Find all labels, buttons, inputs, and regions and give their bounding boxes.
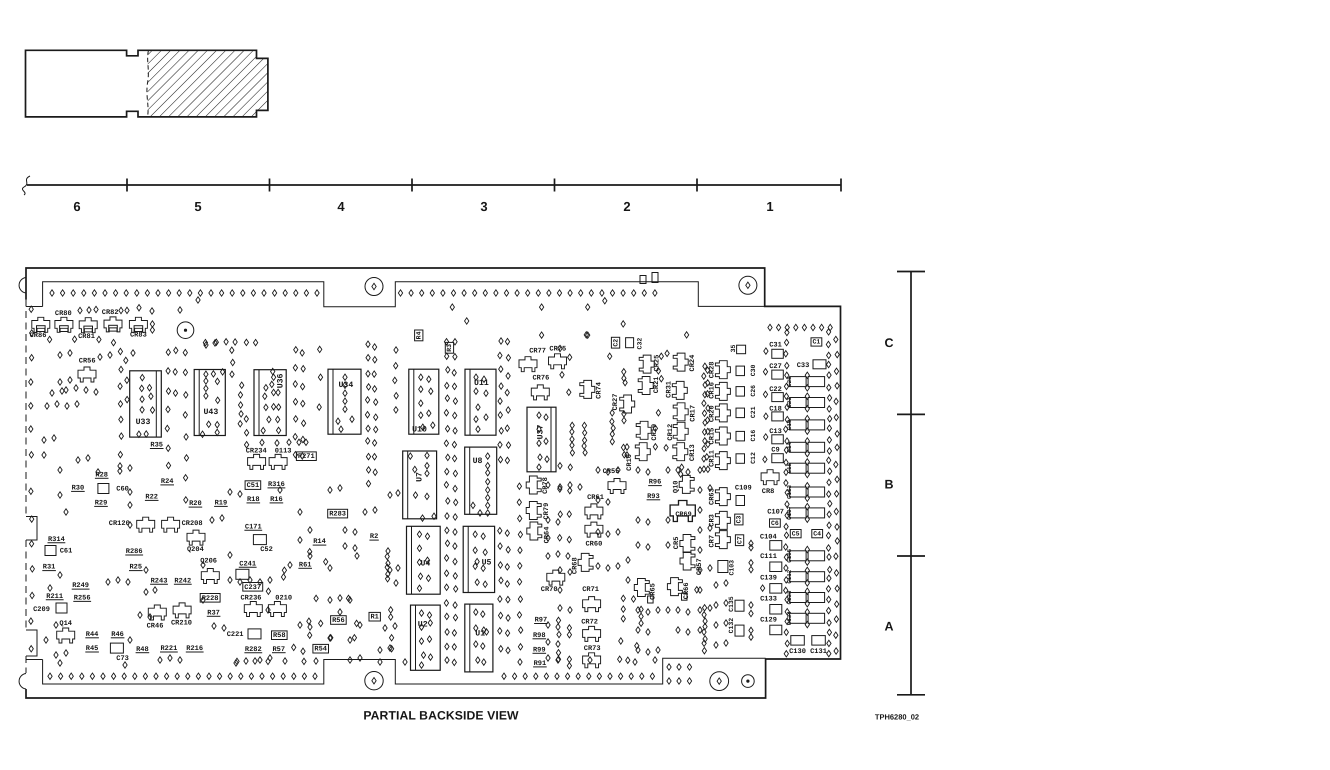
svg-text:C5: C5 bbox=[792, 530, 800, 537]
capacitor C12 body bbox=[736, 454, 745, 464]
svg-text:TPH6280_02: TPH6280_02 bbox=[875, 713, 919, 722]
label CR81 bbox=[78, 333, 95, 341]
label R221 bbox=[160, 645, 178, 653]
diode CR65 body bbox=[634, 579, 649, 597]
diode CR81 body bbox=[79, 318, 97, 333]
label CR70 bbox=[541, 586, 558, 594]
label R93 bbox=[647, 493, 661, 501]
label R3 bbox=[445, 342, 453, 353]
right scale bar line bbox=[910, 272, 912, 695]
capacitor C103 body bbox=[718, 561, 728, 573]
label CR20 bbox=[708, 405, 716, 422]
svg-text:C6: C6 bbox=[771, 520, 779, 527]
label R61 bbox=[298, 561, 312, 569]
svg-text:R1: R1 bbox=[370, 614, 378, 622]
left edge arc top bbox=[19, 278, 26, 294]
label CR17 bbox=[689, 405, 697, 422]
diode CR236 body bbox=[244, 602, 262, 617]
label C104 bbox=[760, 533, 777, 541]
svg-text:CR236: CR236 bbox=[240, 595, 261, 603]
diode CR61 body bbox=[585, 504, 603, 519]
capacitor C27 body bbox=[772, 370, 784, 379]
diode CR76 body bbox=[531, 385, 549, 400]
capacitor C31 body bbox=[772, 349, 784, 358]
ruler tick bbox=[554, 179, 556, 192]
diode CR19 body bbox=[636, 421, 651, 439]
IC U2 bbox=[411, 605, 441, 670]
label CR5 bbox=[673, 537, 681, 550]
IC U11 bbox=[465, 369, 496, 435]
board left edge dashed bbox=[25, 300, 27, 517]
svg-text:C135: C135 bbox=[728, 596, 735, 612]
label C111 bbox=[760, 553, 777, 561]
diode CR234 body bbox=[248, 454, 266, 469]
capacitor C22 body bbox=[772, 393, 784, 402]
label R19 bbox=[214, 500, 228, 508]
ruler break squiggle bbox=[22, 176, 30, 195]
capacitor pair row C138 bbox=[790, 593, 807, 603]
label R97 bbox=[534, 617, 548, 625]
connector body outline bbox=[26, 50, 268, 117]
capacitor C133 body bbox=[770, 605, 782, 615]
left edge notch 2 bbox=[26, 630, 37, 656]
label CR208 bbox=[182, 520, 203, 528]
diode CR21 body bbox=[638, 377, 653, 395]
label CR210 bbox=[171, 620, 192, 628]
diode CR82 body bbox=[104, 317, 122, 332]
label R249 bbox=[72, 582, 90, 590]
diode CR7 body bbox=[715, 531, 730, 549]
diode CR80 body bbox=[55, 317, 73, 332]
label C103 bbox=[728, 560, 735, 576]
capacitor C26 body bbox=[736, 387, 745, 397]
svg-text:C30: C30 bbox=[750, 364, 757, 376]
board inner silkscreen top bbox=[43, 282, 765, 307]
capacitor C104 body bbox=[770, 541, 782, 551]
diode CR27 body bbox=[620, 395, 635, 413]
diode CR69 body bbox=[670, 501, 695, 522]
transistor 0113 body bbox=[269, 454, 287, 469]
label C3 bbox=[735, 514, 743, 525]
label CR21 bbox=[653, 376, 661, 393]
diode CR75 body bbox=[549, 354, 567, 369]
svg-text:CR72: CR72 bbox=[581, 619, 598, 627]
label R4 bbox=[415, 330, 423, 341]
svg-text:CR208: CR208 bbox=[182, 520, 203, 528]
label CR64 bbox=[544, 527, 552, 544]
scale bar tick bbox=[897, 555, 925, 557]
capacitor C13 body bbox=[772, 435, 784, 444]
board outer edge bbox=[26, 268, 841, 698]
capacitor C9 body bbox=[772, 454, 784, 463]
svg-text:C1: C1 bbox=[812, 339, 820, 346]
transistor Q10 body bbox=[679, 475, 694, 493]
svg-text:Q204: Q204 bbox=[187, 546, 204, 554]
svg-text:2: 2 bbox=[623, 199, 630, 214]
label C7 bbox=[735, 535, 743, 546]
scale bar tick bbox=[897, 413, 925, 415]
label CR69 bbox=[675, 511, 691, 519]
svg-text:Q206: Q206 bbox=[200, 557, 217, 565]
scale bar tick bbox=[897, 271, 925, 273]
label R283 bbox=[328, 509, 348, 518]
label C1 bbox=[811, 338, 822, 346]
diode CR66 body bbox=[667, 578, 682, 596]
diode CR64 body bbox=[527, 522, 542, 540]
diode CR63 body bbox=[715, 488, 730, 506]
mounting hole bottom-right large bbox=[710, 672, 729, 691]
diode CR208 body bbox=[162, 517, 180, 532]
label C221 bbox=[227, 631, 244, 639]
mounting hole top-right bbox=[739, 276, 757, 294]
svg-text:CR31: CR31 bbox=[666, 381, 674, 398]
svg-text:U37: U37 bbox=[536, 425, 545, 440]
label C129 bbox=[760, 617, 777, 625]
svg-text:CR80: CR80 bbox=[55, 310, 72, 318]
svg-text:C4: C4 bbox=[813, 530, 821, 537]
label C139 bbox=[760, 575, 777, 583]
diode CR71 body bbox=[583, 597, 601, 612]
label R316 bbox=[268, 481, 286, 489]
label CR80 bbox=[55, 310, 72, 318]
capacitor C209 body bbox=[56, 603, 67, 613]
svg-text:C103: C103 bbox=[728, 560, 735, 576]
svg-text:PARTIAL BACKSIDE VIEW: PARTIAL BACKSIDE VIEW bbox=[363, 709, 519, 723]
svg-text:CR56: CR56 bbox=[79, 357, 96, 365]
label R22 bbox=[145, 494, 159, 502]
svg-text:C21: C21 bbox=[750, 406, 757, 418]
label C22 bbox=[769, 386, 782, 394]
svg-text:CR75: CR75 bbox=[549, 346, 566, 354]
diode CR68 body bbox=[578, 553, 593, 571]
capacitor pair row C23 bbox=[790, 398, 807, 408]
label C130 bbox=[789, 648, 806, 656]
label R14 bbox=[313, 538, 327, 546]
svg-text:CR13: CR13 bbox=[689, 444, 697, 461]
label R91 bbox=[533, 660, 547, 668]
label R271 bbox=[296, 452, 316, 461]
svg-text:U36: U36 bbox=[277, 373, 286, 388]
diode CR11 body bbox=[715, 452, 730, 470]
IC U19 bbox=[465, 604, 493, 672]
capacitor pair row C18 bbox=[790, 463, 807, 473]
diode CR25 body bbox=[639, 355, 654, 373]
capacitor C30 body bbox=[736, 366, 745, 376]
capacitor pair row C19 bbox=[790, 420, 807, 430]
diode CR210 body bbox=[173, 603, 191, 618]
diode CR31 body bbox=[672, 381, 687, 399]
label CR74 bbox=[595, 382, 603, 399]
label 0210 bbox=[275, 595, 292, 603]
label CR11 bbox=[708, 450, 716, 467]
scale bar tick bbox=[897, 694, 925, 696]
diode CR86 body bbox=[32, 317, 50, 332]
capacitor pair row C112 bbox=[790, 572, 807, 582]
label C9 bbox=[771, 447, 779, 455]
svg-text:R283: R283 bbox=[329, 511, 346, 519]
svg-text:B: B bbox=[884, 478, 893, 492]
label R56 bbox=[331, 616, 347, 625]
label CR72 bbox=[581, 619, 598, 627]
svg-text:CR46: CR46 bbox=[147, 623, 164, 631]
left edge notch 1 bbox=[26, 517, 37, 541]
label R211 bbox=[46, 593, 64, 601]
label C33 bbox=[797, 362, 810, 370]
capacitor C221 body bbox=[248, 629, 261, 639]
label C18 bbox=[769, 406, 782, 414]
svg-text:U33: U33 bbox=[136, 418, 151, 427]
label R256 bbox=[73, 595, 91, 603]
diode CR15 body bbox=[715, 427, 730, 445]
label C60 bbox=[116, 486, 129, 494]
svg-text:CR61: CR61 bbox=[587, 494, 604, 502]
capacitor C61 body bbox=[45, 546, 56, 556]
IC U37 bbox=[527, 407, 556, 472]
label R28 bbox=[95, 471, 109, 479]
diode CR10 body bbox=[635, 443, 650, 461]
connector hatched barrel bbox=[148, 50, 268, 117]
diode CR74 body bbox=[580, 380, 595, 398]
IC U8 bbox=[465, 447, 497, 516]
label Q14 bbox=[59, 620, 72, 628]
label R35 bbox=[150, 442, 164, 450]
svg-text:U7: U7 bbox=[416, 472, 425, 482]
svg-text:CR120: CR120 bbox=[109, 520, 130, 528]
svg-text:C14: C14 bbox=[786, 442, 793, 453]
label R46 bbox=[111, 631, 125, 639]
label CR25 bbox=[654, 355, 662, 372]
transistor Q204 body bbox=[187, 530, 205, 545]
label CR83 bbox=[130, 331, 147, 339]
IC U10 bbox=[409, 369, 439, 434]
label C135 bbox=[728, 596, 735, 612]
ruler tick bbox=[269, 179, 271, 192]
label C237 bbox=[243, 583, 263, 592]
label CR86 bbox=[30, 332, 47, 340]
svg-text:CR8: CR8 bbox=[762, 488, 775, 496]
capacitor pair row C105 bbox=[790, 551, 807, 561]
capacitor C32 body bbox=[626, 338, 634, 348]
svg-text:Q10: Q10 bbox=[673, 480, 681, 493]
label CR46 bbox=[147, 623, 164, 631]
fiducial rect 1 bbox=[640, 276, 646, 284]
diode CR77 body bbox=[519, 357, 537, 372]
svg-text:CR11: CR11 bbox=[708, 450, 716, 467]
capacitor pair row C14 bbox=[790, 442, 807, 452]
label R20 bbox=[189, 500, 203, 508]
label C21 bbox=[750, 406, 757, 418]
label C32 bbox=[636, 338, 643, 350]
svg-text:CR16: CR16 bbox=[708, 382, 716, 399]
svg-text:C2: C2 bbox=[612, 339, 619, 347]
label C12 bbox=[750, 452, 757, 464]
inner stub bottom-left bbox=[26, 659, 43, 661]
svg-text:Q14: Q14 bbox=[59, 620, 72, 628]
capacitor C132 body bbox=[735, 625, 744, 636]
svg-text:5: 5 bbox=[194, 199, 201, 214]
label R242 bbox=[174, 577, 192, 585]
svg-text:CR27: CR27 bbox=[612, 394, 620, 411]
label CR3 bbox=[708, 514, 716, 527]
diode CR78 body bbox=[526, 476, 541, 494]
svg-text:CR17: CR17 bbox=[689, 405, 697, 422]
svg-text:C60: C60 bbox=[116, 486, 129, 494]
label CR19 bbox=[651, 424, 659, 441]
svg-text:CR77: CR77 bbox=[529, 347, 546, 355]
diode CR83 body bbox=[129, 317, 147, 332]
capacitor C16 body bbox=[736, 431, 745, 441]
svg-text:CR10: CR10 bbox=[626, 454, 634, 471]
capacitor C171 body bbox=[253, 535, 266, 545]
svg-text:U5: U5 bbox=[482, 559, 492, 568]
right section via row bbox=[768, 324, 772, 330]
mounting hole bottom-left bbox=[365, 672, 383, 690]
svg-text:CR74: CR74 bbox=[595, 382, 603, 399]
diode CR20 body bbox=[715, 404, 730, 422]
IC U43 bbox=[194, 369, 225, 438]
svg-text:CR73: CR73 bbox=[584, 645, 601, 653]
label CR16 bbox=[708, 382, 716, 399]
label C241 bbox=[239, 560, 257, 568]
label R98 bbox=[533, 632, 547, 640]
label CR7 bbox=[708, 535, 716, 548]
diode CR72 body bbox=[583, 626, 601, 641]
svg-text:C52: C52 bbox=[260, 546, 273, 554]
label R2 bbox=[369, 533, 378, 541]
label C109 bbox=[735, 485, 752, 493]
svg-text:C111: C111 bbox=[760, 553, 777, 561]
label CR120 bbox=[109, 520, 130, 528]
svg-text:6: 6 bbox=[73, 199, 80, 214]
svg-text:4: 4 bbox=[337, 199, 345, 214]
label CR8 bbox=[762, 488, 775, 496]
capacitor C33 body bbox=[813, 360, 826, 369]
svg-text:C133: C133 bbox=[760, 596, 777, 604]
svg-text:CR69: CR69 bbox=[675, 511, 691, 519]
diode CR79 body bbox=[526, 502, 541, 520]
svg-text:C12: C12 bbox=[750, 452, 757, 464]
scattered vias bbox=[78, 307, 82, 313]
IC U36 bbox=[254, 368, 286, 435]
diode CR120 body bbox=[137, 517, 155, 532]
label R54 bbox=[313, 644, 329, 653]
capacitor C135 body bbox=[735, 600, 744, 611]
svg-text:C107: C107 bbox=[767, 509, 784, 517]
svg-text:C33: C33 bbox=[797, 362, 810, 370]
svg-text:R4: R4 bbox=[416, 331, 423, 339]
label CR68 bbox=[572, 557, 580, 574]
label R45 bbox=[85, 645, 99, 653]
label Q10 bbox=[673, 480, 681, 493]
label R286 bbox=[125, 548, 143, 556]
svg-text:C237: C237 bbox=[244, 584, 261, 592]
label C6 bbox=[770, 519, 781, 527]
label C209 bbox=[33, 606, 50, 614]
svg-text:CR24: CR24 bbox=[689, 355, 697, 372]
fiducial rect 2 bbox=[652, 273, 658, 283]
label CR55 bbox=[603, 468, 620, 476]
capacitor C111 body bbox=[770, 562, 782, 572]
svg-text:CR70: CR70 bbox=[541, 586, 558, 594]
label CR66 bbox=[683, 582, 691, 599]
label C2 bbox=[611, 337, 619, 348]
top edge via row bbox=[50, 290, 54, 296]
label C27 bbox=[769, 363, 782, 371]
label R216 bbox=[186, 645, 204, 653]
svg-text:C130: C130 bbox=[789, 648, 806, 656]
label CR57 bbox=[696, 558, 704, 575]
svg-text:R58: R58 bbox=[273, 632, 286, 640]
label C31 bbox=[769, 341, 782, 349]
label CR24 bbox=[689, 355, 697, 372]
svg-text:C129: C129 bbox=[760, 617, 777, 625]
bottom right via cluster bbox=[667, 664, 671, 670]
label R31 bbox=[42, 564, 56, 572]
svg-text:CR210: CR210 bbox=[171, 620, 192, 628]
label R243 bbox=[150, 577, 168, 585]
IC U5 bbox=[463, 526, 494, 592]
svg-text:C109: C109 bbox=[735, 485, 752, 493]
inner stub top-left bbox=[26, 306, 43, 308]
svg-text:C131: C131 bbox=[810, 648, 827, 656]
capacitor pair row C28 bbox=[790, 377, 807, 387]
svg-text:R54: R54 bbox=[314, 646, 327, 654]
capacitor C21 body bbox=[736, 408, 745, 418]
label Q204 bbox=[187, 546, 204, 554]
svg-text:1: 1 bbox=[766, 199, 773, 214]
label CR10 bbox=[626, 454, 634, 471]
ruler tick bbox=[696, 179, 698, 192]
label CR234 bbox=[246, 447, 267, 455]
svg-text:CR83: CR83 bbox=[130, 331, 147, 339]
transistor 0210 body bbox=[268, 602, 286, 617]
IC U34 bbox=[328, 369, 361, 434]
label CR15 bbox=[708, 428, 716, 445]
diode CR13 body bbox=[673, 443, 688, 461]
svg-text:C209: C209 bbox=[33, 606, 50, 614]
transistor Q14 body bbox=[57, 628, 75, 643]
transistor Q35 body bbox=[737, 345, 746, 354]
svg-text:C32: C32 bbox=[636, 338, 643, 350]
ruler tick bbox=[840, 179, 842, 192]
diode CR55 body bbox=[608, 479, 626, 494]
capacitor C18 body bbox=[772, 412, 784, 421]
label Q35 bbox=[730, 345, 737, 353]
transistor Q206 body bbox=[201, 569, 219, 584]
label CR13 bbox=[689, 444, 697, 461]
diode CR8 body bbox=[761, 470, 779, 485]
svg-text:A: A bbox=[884, 620, 893, 634]
svg-text:R3: R3 bbox=[446, 344, 453, 352]
svg-text:0113: 0113 bbox=[275, 447, 292, 455]
label CR78 bbox=[542, 477, 550, 494]
diode CR24 body bbox=[673, 353, 688, 371]
svg-text:CR68: CR68 bbox=[572, 557, 580, 574]
label C16 bbox=[750, 430, 757, 442]
label CR71 bbox=[582, 586, 599, 594]
svg-text:CR60: CR60 bbox=[585, 541, 602, 549]
left edge arc bottom bbox=[19, 674, 26, 690]
capacitor C60 body bbox=[98, 484, 109, 494]
label R25 bbox=[129, 564, 143, 572]
capacitor C129 body bbox=[770, 625, 782, 635]
label CR65 bbox=[650, 583, 658, 600]
svg-text:C221: C221 bbox=[227, 631, 244, 639]
label CR236 bbox=[240, 595, 261, 603]
label R96 bbox=[648, 479, 662, 487]
connector dashed break line bbox=[147, 50, 149, 117]
svg-text:U43: U43 bbox=[204, 408, 219, 417]
